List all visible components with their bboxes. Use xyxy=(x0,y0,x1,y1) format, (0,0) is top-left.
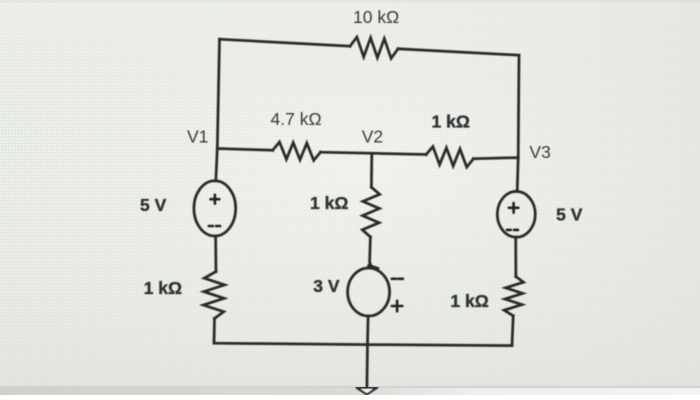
resistor 1k middle xyxy=(362,187,379,237)
svg-text:1 kΩ: 1 kΩ xyxy=(450,291,488,311)
polarity 3V source: minus (top right) xyxy=(392,277,403,280)
resistor 4.7k xyxy=(273,142,321,160)
wire left resistor to bottom-left corner xyxy=(213,318,216,343)
wire top-right segment xyxy=(398,49,519,55)
wire right vertical (top corner to V3) xyxy=(517,55,521,157)
resistor 1k left xyxy=(203,272,224,319)
source polarity marks xyxy=(209,195,519,311)
wire V1 to left source xyxy=(216,149,218,182)
wire bottom junction to ground xyxy=(366,345,369,388)
resistor 10k top xyxy=(350,37,398,58)
voltage source right 5V xyxy=(497,191,535,237)
svg-text:1 kΩ: 1 kΩ xyxy=(432,112,470,132)
polarity left source: plus xyxy=(211,195,220,204)
svg-text:3 V: 3 V xyxy=(313,276,340,296)
resistor 1k right xyxy=(504,277,523,316)
svg-text:V2: V2 xyxy=(362,126,383,146)
wire right source to right resistor xyxy=(514,237,517,277)
ground symbol xyxy=(357,388,377,395)
wire V3 to right source xyxy=(517,158,518,192)
svg-text:4.7 kΩ: 4.7 kΩ xyxy=(271,109,322,129)
wire left vertical (top corner to V1 node) xyxy=(217,39,219,148)
svg-text:V1: V1 xyxy=(187,126,208,146)
svg-text:5 V: 5 V xyxy=(556,204,583,224)
polarity right source: plus xyxy=(509,203,519,213)
wire bottom xyxy=(214,343,512,345)
svg-text:V3: V3 xyxy=(529,142,550,162)
wire 1k to V3 node xyxy=(474,158,519,159)
polarity left source: minus xyxy=(209,225,220,228)
wire right resistor to bottom-right corner xyxy=(512,316,513,346)
voltage source V left 5V xyxy=(194,181,236,236)
wire middle resistor to source 3V xyxy=(370,237,372,267)
voltage source 3V middle xyxy=(348,268,390,316)
svg-text:10 kΩ: 10 kΩ xyxy=(353,7,399,27)
wire V2 down to middle resistor xyxy=(370,153,373,187)
resistor 1k between V2 and V3 xyxy=(426,147,473,168)
polarity right source: minus xyxy=(507,229,518,232)
junction nub at 3V source top xyxy=(369,266,378,269)
wire middle horizontal V1-V2-V3 xyxy=(217,149,272,151)
wire 3V source to bottom junction xyxy=(366,316,369,345)
svg-text:5 V: 5 V xyxy=(140,195,167,215)
wire top-left segment xyxy=(220,39,351,46)
polarity 3V source: plus (bottom right) xyxy=(392,301,402,311)
svg-text:1 kΩ: 1 kΩ xyxy=(310,193,348,213)
wire 4.7k to V2 xyxy=(321,152,427,154)
wire left source to left resistor xyxy=(214,236,217,272)
svg-text:1 kΩ: 1 kΩ xyxy=(144,278,182,298)
